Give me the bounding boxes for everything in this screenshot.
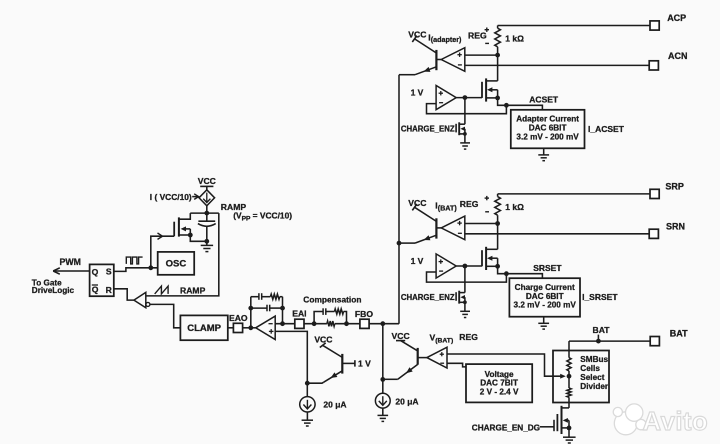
wire ACP rail	[498, 25, 650, 27]
capacitor C3 feedback mid	[251, 305, 283, 312]
svg-text:Cells: Cells	[580, 364, 600, 373]
label V(BAT) REG	[430, 332, 479, 345]
ground under DAC block	[538, 148, 549, 160]
wire feedback right riser	[282, 297, 284, 324]
wire R input	[114, 289, 134, 300]
svg-text:Compensation: Compensation	[303, 295, 361, 305]
wire V(BAT) minus to voltage DAC	[447, 363, 466, 367]
svg-text:1 kΩ: 1 kΩ	[505, 202, 524, 212]
wire amp minus input rail	[465, 233, 649, 235]
wire to charge-enz mosfet	[464, 266, 466, 293]
vcc srset regulator	[408, 198, 426, 211]
sawtooth glyph	[155, 286, 168, 294]
pad SRP	[650, 181, 684, 198]
wire sense resistor to mosfet drain	[497, 55, 499, 81]
ground under C1	[201, 241, 213, 251]
label RAMP at comparator	[180, 286, 206, 296]
resistor R3 compensation upper	[335, 309, 347, 324]
svg-text:DAC 6BIT: DAC 6BIT	[526, 292, 564, 301]
wire V(BAT) plus to divider tap	[447, 354, 566, 379]
wire feedback left riser	[250, 297, 252, 328]
wire to charge-enz mosfet	[464, 98, 466, 125]
wire to 20uA source 1	[306, 383, 308, 396]
ground under enz mosfet	[460, 134, 470, 149]
node feedback mid-right	[280, 306, 285, 311]
label I_SRSET	[582, 292, 618, 302]
op-amp U V(BAT) REG	[418, 347, 447, 368]
wire BAT rail	[569, 341, 650, 350]
svg-text:CHARGE_ENZ: CHARGE_ENZ	[401, 293, 455, 302]
node EAO junction	[248, 325, 253, 330]
svg-text:Voltage: Voltage	[485, 370, 514, 379]
square-wave glyph	[126, 257, 142, 264]
node enz source junction	[463, 132, 467, 136]
smbus cells select divider block	[553, 351, 609, 403]
svg-text:Adapter Current: Adapter Current	[516, 115, 579, 124]
wire SRP rail	[498, 193, 650, 195]
svg-text:VCC: VCC	[408, 198, 426, 208]
svg-text:20 μA: 20 μA	[395, 396, 418, 406]
svg-text:EAI: EAI	[292, 309, 306, 319]
vcc voltage regulator	[392, 331, 410, 341]
svg-text:CHARGE_EN_DG: CHARGE_EN_DG	[472, 424, 540, 433]
svg-text:1 V: 1 V	[411, 87, 424, 97]
vcc clamp transistor	[314, 334, 332, 347]
node BAT junction	[596, 339, 601, 344]
transistor Q V(BAT)	[383, 341, 418, 380]
wire comparator output to clamp	[150, 304, 181, 327]
capacitor C1 ramp	[198, 213, 216, 241]
wire EAI to compensation	[304, 323, 327, 325]
svg-text:S: S	[106, 267, 112, 277]
voltage DAC block	[466, 364, 532, 402]
wire amp plus input	[465, 54, 498, 56]
ground under charge-en-dg	[563, 428, 576, 443]
svg-text:1 V: 1 V	[358, 358, 371, 368]
svg-text:R: R	[106, 285, 113, 295]
svg-text:3.2 mV - 200 mV: 3.2 mV - 200 mV	[516, 132, 579, 141]
Charge Current DAC block	[509, 278, 580, 317]
svg-text:PWM: PWM	[60, 257, 82, 267]
label sense polarity	[485, 196, 489, 212]
transistor M sense SRSET	[482, 247, 498, 270]
svg-text:VCC: VCC	[198, 176, 216, 186]
pad FBO	[355, 309, 373, 329]
svg-text:SMBus: SMBus	[580, 355, 608, 364]
node compensation right	[344, 321, 349, 326]
label ACSET	[529, 95, 559, 105]
transistor Q ACSET	[399, 39, 436, 75]
node resistor bottom junction	[495, 221, 500, 226]
label PWM	[60, 257, 82, 267]
svg-text:CLAMP: CLAMP	[187, 323, 221, 334]
label I	[435, 199, 478, 213]
svg-text:CHARGE_ENZ: CHARGE_ENZ	[401, 124, 455, 133]
svg-text:20 μA: 20 μA	[323, 399, 346, 409]
clamp block	[180, 315, 227, 340]
svg-text:FBO: FBO	[355, 309, 373, 319]
svg-text:REG: REG	[459, 332, 478, 342]
svg-text:Q: Q	[92, 285, 99, 295]
op-amp U ACSET REG	[436, 48, 464, 72]
node enz source junction	[463, 300, 467, 304]
label Compensation	[303, 295, 361, 305]
wire FBO to collector rails	[369, 323, 399, 325]
svg-text:I_ACSET: I_ACSET	[588, 124, 625, 134]
node mosfet source junction	[495, 96, 500, 101]
node cap bottom junction	[204, 239, 209, 244]
node resistor bottom junction	[495, 53, 500, 58]
pad EAI	[292, 309, 306, 329]
wire M1 source to cap bottom	[190, 235, 207, 241]
resistor R divider upper	[567, 351, 571, 389]
wire amp minus input rail	[465, 64, 649, 66]
node FBO rail junction	[380, 321, 385, 326]
svg-text:EAO: EAO	[229, 313, 248, 323]
wire 1V amp output	[456, 97, 482, 99]
transistor M charge-enz	[456, 291, 465, 304]
ground under enz mosfet	[460, 302, 470, 317]
resistor R2 feedback upper	[270, 294, 282, 299]
svg-text:SRSET: SRSET	[533, 263, 562, 273]
node ramp top junction	[204, 211, 209, 216]
node feedback mid-left	[248, 306, 253, 311]
node en-dg source junction	[567, 426, 572, 431]
flip-flop U4 (SR latch)	[90, 264, 114, 296]
svg-text:VCC: VCC	[408, 29, 426, 39]
wire error amp plus input riser	[275, 331, 307, 383]
transistor M sense ACSET	[482, 78, 498, 101]
wire S input from OSC	[114, 268, 158, 272]
ground under I2	[302, 412, 313, 426]
wire amp plus input	[465, 223, 498, 225]
transistor M charge-en-dg	[554, 406, 569, 434]
wire PWM output with arrowhead	[53, 268, 89, 274]
label VPP = VCC/10	[233, 211, 292, 223]
svg-text:DAC 7BIT: DAC 7BIT	[480, 379, 518, 388]
svg-text:Charge Current: Charge Current	[515, 283, 575, 292]
svg-text:REG: REG	[460, 199, 479, 209]
resistor R 1kOhm SRSET	[495, 194, 524, 224]
svg-text:BAT: BAT	[592, 325, 610, 335]
svg-text:SRP: SRP	[665, 181, 684, 191]
vcc ramp generator	[198, 176, 216, 190]
svg-text:3.2 mV - 200 mV: 3.2 mV - 200 mV	[514, 301, 577, 310]
pad EAO	[229, 313, 248, 333]
svg-text:RAMP: RAMP	[180, 286, 206, 296]
label CHARGE_ENZ	[401, 293, 455, 302]
svg-text:DriveLogic: DriveLogic	[32, 286, 75, 295]
svg-text:I ( VCC/10): I ( VCC/10)	[150, 192, 192, 202]
label To Gate DriveLogic	[32, 278, 75, 294]
capacitor C2 feedback upper	[251, 293, 271, 300]
svg-text:Avito: Avito	[643, 408, 709, 436]
Adapter Current DAC block	[511, 110, 585, 149]
label I	[428, 31, 487, 45]
svg-text:BAT: BAT	[670, 329, 688, 339]
node FBO rail to V(BAT) junction	[380, 377, 385, 382]
current source I1 diamond I(VCC/10)	[199, 190, 215, 206]
transistor M charge-enz	[456, 122, 465, 135]
node charge collector junction	[397, 241, 402, 246]
svg-text:Q: Q	[92, 267, 99, 277]
label CHARGE_EN_DG with gate wire	[472, 424, 554, 433]
label sense polarity	[485, 28, 489, 44]
pad BAT	[650, 329, 688, 346]
node compensation left	[312, 321, 317, 326]
capacitor C4 compensation	[314, 308, 334, 323]
label I (VCC/10) with arrow	[150, 192, 199, 202]
svg-text:1 V: 1 V	[411, 256, 424, 266]
osc U5	[158, 252, 195, 275]
wire EAO to error amp	[243, 327, 256, 329]
pad SRN	[649, 221, 685, 238]
wire feedback loop	[427, 104, 507, 114]
svg-text:Select: Select	[580, 373, 604, 382]
wire error amp minus to EAI	[275, 323, 295, 325]
wire 1V amp output	[456, 265, 482, 267]
pad ACN	[649, 51, 687, 70]
resistor R divider lower	[567, 388, 571, 408]
node ACSET junction	[504, 103, 509, 108]
label I_ACSET	[588, 124, 625, 134]
wire feedback loop	[427, 272, 507, 282]
svg-text:ACSET: ACSET	[529, 95, 559, 105]
svg-text:VCC: VCC	[392, 331, 410, 341]
resistor R 1kOhm ACSET	[495, 26, 524, 56]
node feedback bottom-right	[280, 321, 285, 326]
ground under DAC block	[538, 317, 549, 329]
comparator U6 PWM	[134, 292, 150, 307]
wire gate drive to ramp transistor with arrowhead	[151, 233, 174, 268]
svg-text:SRN: SRN	[666, 221, 685, 231]
svg-text:1 kΩ: 1 kΩ	[505, 34, 524, 44]
wire sense resistor to mosfet drain	[497, 224, 499, 250]
node SRSET junction	[504, 271, 509, 276]
wire SRSET to DAC	[506, 274, 542, 279]
wire FBO rail down	[382, 324, 384, 394]
op-amp U3 error amplifier	[256, 316, 276, 339]
svg-text:OSC: OSC	[166, 259, 187, 270]
current source I2 20uA	[300, 397, 347, 412]
svg-text:DAC 6BIT: DAC 6BIT	[529, 124, 567, 133]
node 1V amp output junction	[463, 95, 468, 100]
op-amp U 1V SRSET	[411, 254, 457, 278]
node mosfet source junction	[495, 264, 500, 269]
label RAMP at generator	[221, 202, 247, 212]
node 1V amp output junction	[463, 264, 468, 269]
label BAT net with tick	[592, 325, 610, 341]
wire collector rail adapter+charge	[398, 75, 400, 324]
svg-text:Divider: Divider	[580, 382, 609, 391]
vcc acset regulator	[408, 29, 426, 42]
transistor M1 ramp discharge	[174, 213, 190, 237]
current source I3 20uA	[375, 393, 418, 408]
svg-text:ACP: ACP	[667, 13, 686, 23]
wire ramp node rail	[146, 206, 219, 296]
wire mosfet source to set node	[498, 98, 507, 105]
resistor R4 compensation series	[327, 321, 360, 326]
watermark avito logo	[613, 404, 708, 436]
svg-text:2 V - 2.4 V: 2 V - 2.4 V	[480, 387, 519, 396]
op-amp U SRSET REG	[436, 216, 464, 240]
node clamp collector junction	[305, 381, 310, 386]
svg-text:VCC: VCC	[314, 334, 332, 344]
ground under I3	[378, 408, 389, 421]
svg-text:I_SRSET: I_SRSET	[582, 292, 618, 302]
transistor Q2 1V clamp	[307, 345, 371, 383]
op-amp U 1V ACSET	[411, 86, 457, 110]
pad ACP	[650, 13, 686, 30]
node M1 source junction	[188, 233, 193, 238]
node divider tap	[567, 374, 572, 379]
node S/OSC junction	[148, 265, 153, 270]
transistor Q SRSET	[399, 207, 436, 243]
wire ACSET to DAC	[506, 105, 542, 110]
label CHARGE_ENZ	[401, 124, 455, 133]
wire mosfet source to set node	[498, 266, 507, 273]
wire clamp to EAO	[228, 327, 234, 329]
svg-text:ACN: ACN	[668, 51, 688, 61]
svg-text:REG: REG	[468, 31, 487, 41]
label SRSET	[533, 263, 562, 273]
